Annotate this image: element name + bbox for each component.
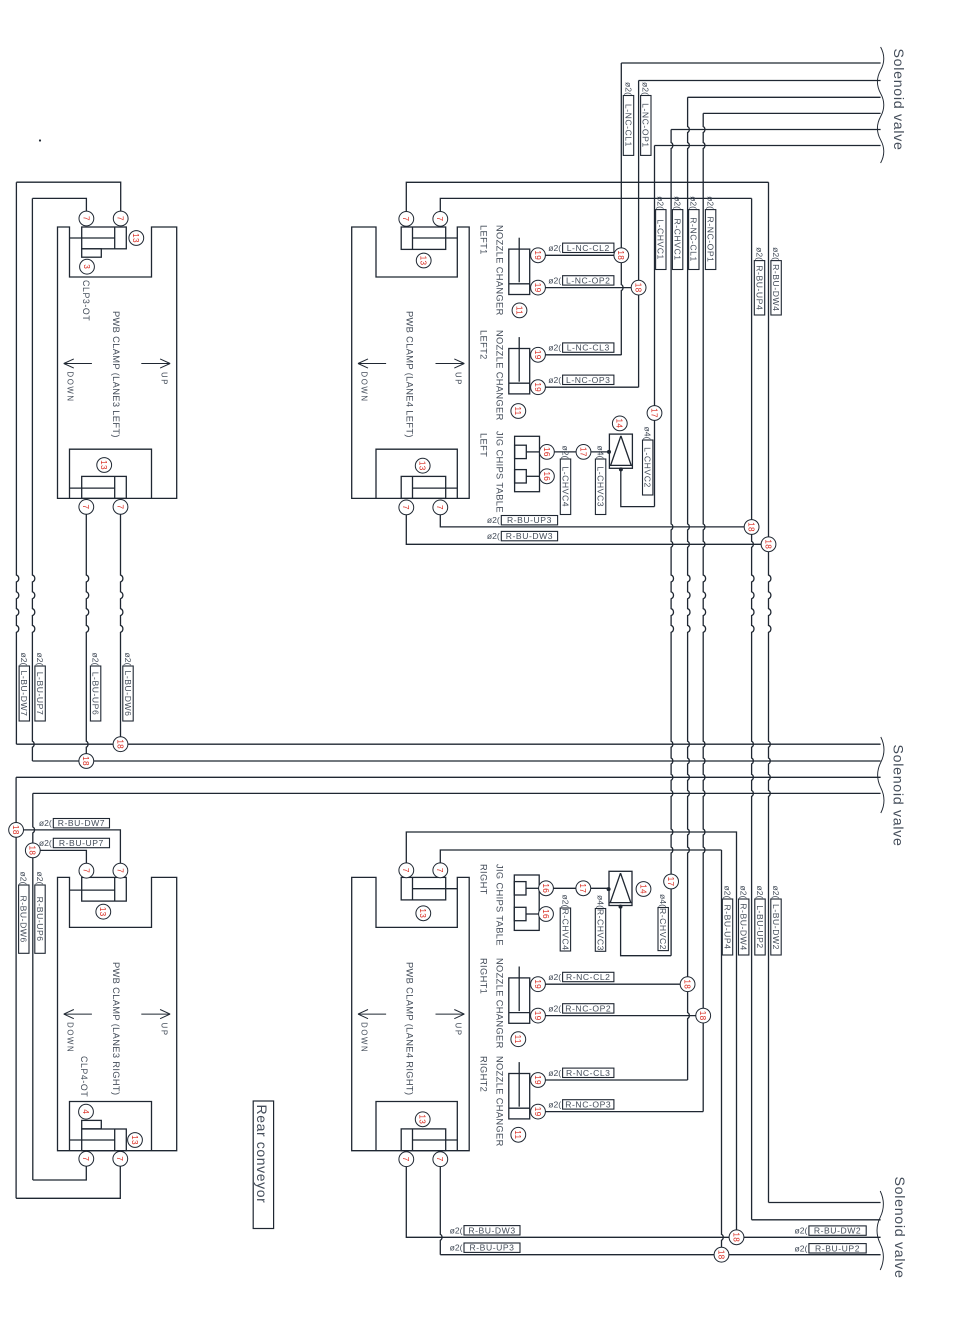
arrow UP [436,359,465,386]
arrow UP [141,359,170,386]
svg-text:18: 18 [81,756,90,766]
node 19 nozzle changer port [531,1073,546,1088]
node 18 junction [79,754,94,769]
label R-NC-OP3 [548,1099,614,1109]
svg-text:ø2(: ø2( [673,196,683,209]
label R-BU-DW7 [39,818,110,828]
node 19 nozzle changer port [531,280,546,295]
node 7 cylinder port [399,863,414,878]
node 7 cylinder port [79,1151,94,1166]
svg-text:18: 18 [115,739,124,749]
piston CLP3 bottom [70,476,127,498]
svg-text:Solenoid valve: Solenoid valve [890,49,906,151]
title NOZZLE CHANGER RIGHT2 [478,1056,504,1147]
label L-BU-UP6 [90,653,100,721]
wire L-BU-UP2 elbow to bottom solenoid valve [752,1219,881,1221]
wire R-BU-DW3 lower to bottom solenoid valve [406,1167,880,1238]
node 3 [80,259,95,274]
node 16 jig port [540,445,555,460]
wire flow valve LEFT output to bus L-CHVC1 [621,469,655,506]
svg-text:RIGHT2: RIGHT2 [478,1056,488,1092]
svg-text:R-BU-DW4: R-BU-DW4 [739,903,749,950]
svg-text:3: 3 [82,264,91,269]
label ø4 L-CHVC2 [643,427,653,495]
svg-text:L-BU-DW6: L-BU-DW6 [123,671,133,717]
svg-text:L-CHVC4: L-CHVC4 [560,466,570,507]
label R-BU-DW3 lower [450,1225,520,1235]
flow control valve RIGHT [607,871,632,908]
svg-text:NOZZLE CHANGER: NOZZLE CHANGER [494,225,504,316]
svg-text:18: 18 [28,846,37,856]
svg-text:Solenoid valve: Solenoid valve [890,745,906,847]
label ø4 R-CHVC2 [658,894,668,951]
wire CLP4 bottom left port to R-BU-UP6 [33,1166,87,1180]
svg-text:ø2(: ø2( [560,895,570,908]
svg-text:ø2(: ø2( [548,1068,561,1078]
svg-text:L-CHVC3: L-CHVC3 [596,466,606,507]
wire branch R-BU-UP7 to CLP4 top left port [40,850,86,863]
node 7 cylinder port [113,500,128,515]
wire bus R-CHVC1 to solenoid [671,129,881,131]
svg-text:PWB CLAMP (LANE4 LEFT): PWB CLAMP (LANE4 LEFT) [405,311,415,438]
svg-text:ø4(: ø4( [643,427,653,440]
node 7 cylinder port [399,500,414,515]
cylinder body PWB CLAMP (LANE4 RIGHT) [352,877,470,1150]
label R-NC-CL1 [689,196,699,269]
svg-text:11: 11 [513,406,522,415]
svg-text:R-CHVC4: R-CHVC4 [560,908,570,950]
node 19 nozzle changer port [531,347,546,362]
svg-text:ø2(: ø2( [722,886,732,899]
svg-text:DOWN: DOWN [65,1022,74,1053]
node 7 cylinder port [79,211,94,226]
arrow DOWN [64,1010,92,1054]
svg-text:R-NC-CL1: R-NC-CL1 [689,217,699,262]
node 16 jig port [539,907,554,922]
svg-text:R-BU-UP7: R-BU-UP7 [59,838,104,848]
node 13 [129,231,144,246]
svg-text:ø2(: ø2( [123,653,133,666]
wire R-NC-CL2 from nozzle changer RIGHT1 [545,983,680,985]
jig chips table RIGHT [514,875,539,930]
arrow DOWN [358,1010,386,1054]
node 19 nozzle changer port [531,380,546,395]
node 7 cylinder port [433,500,448,515]
flow control valve LEFT [607,434,632,471]
svg-text:R-BU-UP4: R-BU-UP4 [722,905,732,950]
piston LANE4-LEFT bottom [401,476,457,498]
wire branch R-BU-DW7 to CLP4 top right port [24,830,121,863]
svg-text:R-NC-OP3: R-NC-OP3 [565,1099,611,1109]
svg-text:NOZZLE CHANGER: NOZZLE CHANGER [494,330,504,421]
nozzle changer cylinder RIGHT2 [509,1062,530,1119]
svg-text:7: 7 [401,868,410,873]
svg-text:18: 18 [763,539,772,549]
node 17 [576,445,591,460]
node 14 [636,882,651,897]
node 16 jig port [539,881,554,896]
svg-text:ø2(: ø2( [623,82,633,95]
svg-text:LEFT: LEFT [478,433,488,457]
svg-text:11: 11 [513,1130,522,1139]
svg-text:L-BU-UP7: L-BU-UP7 [35,672,45,716]
svg-text:R-NC-CL3: R-NC-CL3 [566,1068,611,1078]
node 14 [612,416,627,431]
svg-text:UP: UP [159,1023,168,1037]
node 13 [416,253,431,268]
svg-text:NOZZLE CHANGER: NOZZLE CHANGER [494,1056,504,1147]
svg-text:7: 7 [435,868,444,873]
wire LANE4-RIGHT top left port to vertical R-BU-DW4 lower [406,832,736,1230]
arrow DOWN [64,359,92,403]
svg-text:ø2(: ø2( [450,1225,463,1235]
label L-NC-CL3 [548,343,614,353]
svg-text:ø2(: ø2( [771,247,781,260]
solenoid valve break bottom [877,1191,883,1270]
svg-text:7: 7 [401,1157,410,1162]
node 7 cylinder port [79,500,94,515]
wire R-NC-OP2 from nozzle changer RIGHT1 [545,1015,695,1017]
svg-text:18: 18 [11,825,20,835]
wire L-BU-DW2 elbow to bottom solenoid valve [769,1202,881,1204]
svg-text:R-BU-UP3: R-BU-UP3 [507,515,552,525]
svg-text:ø4(: ø4( [658,894,668,907]
svg-text:DOWN: DOWN [360,372,369,403]
node 7 cylinder port [79,863,94,878]
solenoid valve break top [877,47,883,163]
svg-text:13: 13 [419,256,428,266]
svg-text:ø2(: ø2( [771,886,781,899]
svg-text:7: 7 [435,1157,444,1162]
wire jig RIGHT lower port to node 16 [526,913,540,915]
label ø2 R-CHVC4 [560,895,570,951]
svg-text:ø2(: ø2( [548,1099,561,1109]
piston LANE4-RIGHT top [401,877,457,900]
svg-text:18: 18 [747,522,756,532]
svg-text:ø2(: ø2( [548,972,561,982]
svg-text:DOWN: DOWN [65,372,74,403]
wire flow valve RIGHT output to bus R-CHVC1 [621,908,672,956]
svg-text:R-BU-UP2: R-BU-UP2 [815,1243,860,1253]
svg-text:CLP3-OT: CLP3-OT [81,280,91,321]
svg-text:13: 13 [131,233,140,243]
svg-text:R-BU-DW6: R-BU-DW6 [19,895,29,942]
wire clamp CLP3 top left port to vertical L-BU-UP7 [32,198,86,211]
wire R-BU-UP net corner to middle solenoid valve [33,792,881,794]
piston CLP3 top [70,227,127,257]
label ø4 L-CHVC3 [595,446,605,515]
node 7 cylinder port [433,1152,448,1167]
cylinder body PWB CLAMP (LANE3 LEFT) [58,227,177,498]
svg-text:L-BU-UP2: L-BU-UP2 [755,905,765,949]
node 7 cylinder port [433,863,448,878]
svg-text:16: 16 [542,447,551,457]
svg-text:L-NC-OP3: L-NC-OP3 [566,375,611,385]
svg-text:18: 18 [634,283,643,293]
svg-text:CLP4-OT: CLP4-OT [79,1056,89,1097]
wire jig LEFT lower port to node 16 [526,475,540,477]
wire vertical R-BU-UP6 below node [32,858,34,1180]
wire R-NC-CL3 from nozzle changer RIGHT2 [545,1079,687,1081]
node 7 cylinder port [399,1152,414,1167]
svg-text:UP: UP [159,372,168,386]
svg-text:19: 19 [533,382,542,392]
node 13 [416,906,431,921]
svg-text:19: 19 [533,979,542,989]
svg-text:L-NC-CL2: L-NC-CL2 [567,243,610,253]
node 13 [128,1133,143,1148]
svg-text:ø4(: ø4( [595,895,605,908]
node 7 cylinder port [113,1151,128,1166]
label L-NC-OP1 [641,82,651,155]
wire bus R-NC-CL1 to solenoid [688,96,881,98]
label R-BU-UP3 [487,515,558,525]
arrow DOWN [358,359,386,403]
svg-text:13: 13 [418,1114,427,1124]
svg-text:NOZZLE CHANGER: NOZZLE CHANGER [494,958,504,1049]
label L-NC-OP2 [548,275,614,285]
svg-text:R-NC-CL2: R-NC-CL2 [566,972,611,982]
svg-text:ø2(: ø2( [548,243,561,253]
node 11 [511,1127,526,1142]
svg-text:19: 19 [533,283,542,293]
label ø4 R-CHVC3 [595,895,605,951]
wire L-NC-CL3 from nozzle changer LEFT2 [545,354,621,356]
svg-text:PWB CLAMP (LANE3 LEFT): PWB CLAMP (LANE3 LEFT) [111,311,121,438]
node 11 [512,303,527,318]
wire L-BU-DW net to middle solenoid valve [16,743,880,745]
label L-NC-OP3 [548,375,614,385]
svg-text:ø2(: ø2( [19,872,29,885]
svg-text:R-CHVC1: R-CHVC1 [673,219,683,261]
wire L-BU-UP net to middle solenoid valve [32,760,880,762]
svg-text:L-NC-CL1: L-NC-CL1 [623,104,633,147]
svg-text:R-BU-UP4: R-BU-UP4 [754,265,764,310]
node 18 junction [9,823,24,838]
svg-text:13: 13 [99,460,108,470]
svg-text:ø2(: ø2( [706,196,716,209]
svg-text:JIG CHIPS TABLE: JIG CHIPS TABLE [494,864,504,946]
node 18 junction [25,843,40,858]
wire L-NC-CL2 from nozzle changer LEFT1 [545,254,614,256]
svg-text:ø2(: ø2( [739,886,749,899]
svg-text:L-BU-UP6: L-BU-UP6 [91,672,101,716]
svg-text:7: 7 [115,504,124,509]
label L-NC-CL1 [623,82,633,155]
wire vertical L-BU-DW6 from CLP3 bottom right port [121,514,123,737]
label R-BU-DW6 [19,872,29,954]
svg-text:ø2(: ø2( [39,838,52,848]
svg-text:JIG CHIPS TABLE: JIG CHIPS TABLE [494,431,504,513]
wire bus L-NC-OP1 to solenoid [639,80,881,82]
svg-text:ø2(: ø2( [39,818,52,828]
label L-BU-DW2 [771,886,781,955]
arrow UP [436,1010,465,1037]
nozzle changer cylinder LEFT1 [509,238,530,295]
wire clamp CLP3 top right port to vertical L-BU-DW7 [16,182,120,211]
svg-text:16: 16 [541,883,550,893]
label R-BU-UP6 [35,872,45,954]
label R-NC-CL2 [548,972,614,982]
title NOZZLE CHANGER LEFT1 [478,225,504,316]
svg-text:R-NC-OP2: R-NC-OP2 [565,1003,611,1013]
nozzle changer cylinder LEFT2 [509,337,530,394]
svg-text:DOWN: DOWN [360,1022,369,1053]
svg-text:R-BU-UP6: R-BU-UP6 [35,897,45,942]
node 16 jig port [540,469,555,484]
label R-NC-CL3 [548,1068,614,1078]
svg-text:R-BU-DW7: R-BU-DW7 [58,818,105,828]
svg-text:13: 13 [418,908,427,918]
svg-text:19: 19 [533,1011,542,1021]
svg-text:ø2(: ø2( [487,515,500,525]
svg-text:LEFT1: LEFT1 [478,225,488,255]
svg-text:16: 16 [541,909,550,919]
arrow UP [141,1010,170,1037]
svg-text:17: 17 [649,408,658,418]
label ø2 L-CHVC4 [560,446,570,515]
svg-text:R-CHVC2: R-CHVC2 [658,908,668,950]
svg-text:L-NC-OP1: L-NC-OP1 [641,103,651,148]
cylinder body PWB CLAMP (LANE3 RIGHT) [58,877,177,1150]
label R-NC-OP2 [548,1003,614,1013]
wire node 17 to flow valve LEFT [591,451,610,453]
label R-BU-UP2 [795,1243,867,1253]
svg-text:7: 7 [401,505,410,510]
svg-text:19: 19 [533,1075,542,1085]
label L-BU-DW7 [19,653,29,721]
svg-text:7: 7 [435,505,444,510]
svg-text:RIGHT1: RIGHT1 [478,958,488,994]
node 13 [415,458,430,473]
node 18 junction [631,280,646,295]
svg-text:18: 18 [731,1232,740,1242]
svg-text:RIGHT: RIGHT [478,864,488,895]
svg-text:ø2(: ø2( [35,872,45,885]
svg-text:ø2(: ø2( [641,82,651,95]
wire LANE4-LEFT top left port to vertical R-BU-DW4 [406,182,768,211]
svg-text:R-BU-DW3: R-BU-DW3 [468,1225,515,1235]
svg-text:18: 18 [616,250,625,260]
piston CLP4 top [70,877,127,901]
wire node 17 to flow valve RIGHT [591,887,609,889]
wire R-BU-DW net corner to middle solenoid valve [16,776,881,778]
wire vertical R-BU-DW6 below node [15,837,17,1198]
node 17 [576,881,591,896]
svg-text:7: 7 [81,504,90,509]
svg-text:ø2(: ø2( [795,1243,808,1253]
nozzle changer cylinder RIGHT1 [509,967,530,1024]
wire R-BU-UP3 lower to bottom solenoid valve [440,1167,442,1255]
node 7 cylinder port [113,211,128,226]
wire bus L-NC-CL1 to solenoid [621,62,880,64]
node 18 junction [113,737,128,752]
label R-CHVC1 [672,196,682,269]
label R-BU-UP4 [754,247,764,315]
svg-text:ø2(: ø2( [548,275,561,285]
svg-text:7: 7 [81,1156,90,1161]
node 17 [664,874,679,889]
node 17 [647,406,662,421]
label L-BU-DW6 [123,653,133,721]
svg-text:19: 19 [533,1107,542,1117]
node 18 junction [714,1247,729,1262]
wire L-NC-OP3 from nozzle changer LEFT2 [545,386,638,388]
svg-text:UP: UP [454,372,463,386]
svg-text:ø2(: ø2( [548,375,561,385]
label box Rear conveyor [253,1101,273,1229]
svg-text:L-NC-CL3: L-NC-CL3 [567,343,610,353]
svg-text:18: 18 [716,1250,725,1260]
svg-text:Solenoid valve: Solenoid valve [891,1177,907,1279]
node 18 junction [614,248,629,263]
svg-text:PWB CLAMP (LANE3 RIGHT): PWB CLAMP (LANE3 RIGHT) [111,962,121,1095]
svg-text:ø2(: ø2( [19,653,29,666]
node 18 junction [761,537,776,552]
wire jig RIGHT port to node 16 [526,887,540,889]
svg-text:7: 7 [81,216,90,221]
title JIG CHIPS TABLE RIGHT [478,864,504,946]
node 11 [511,1032,526,1047]
title NOZZLE CHANGER RIGHT1 [478,958,504,1049]
svg-text:17: 17 [578,447,587,457]
svg-text:ø2(: ø2( [548,1003,561,1013]
svg-text:L-CHVC2: L-CHVC2 [643,447,653,488]
svg-text:13: 13 [130,1135,139,1145]
svg-text:L-CHVC1: L-CHVC1 [656,219,666,260]
wire LANE4-LEFT top right port to vertical R-BU-UP4 [440,198,751,211]
svg-text:ø2(: ø2( [450,1243,463,1253]
svg-text:ø2(: ø2( [548,343,561,353]
svg-text:4: 4 [81,1109,90,1114]
label R-BU-DW4 [771,247,781,315]
node 18 junction [680,977,695,992]
svg-text:7: 7 [435,216,444,221]
svg-text:L-NC-OP2: L-NC-OP2 [566,275,611,285]
svg-text:ø2(: ø2( [35,653,45,666]
svg-text:ø2(: ø2( [755,886,765,899]
svg-text:R-BU-DW2: R-BU-DW2 [814,1226,861,1236]
svg-text:7: 7 [115,868,124,873]
svg-text:7: 7 [401,216,410,221]
svg-text:14: 14 [615,419,624,429]
wire R-NC-OP3 from nozzle changer RIGHT2 [545,1111,703,1113]
node 18 junction [744,520,759,535]
svg-text:UP: UP [454,1023,463,1037]
cylinder body PWB CLAMP (LANE4 LEFT) [352,227,470,498]
node 7 cylinder port [399,212,414,227]
node 18 junction [729,1230,744,1245]
wire bus L-CHVC1 to solenoid [655,145,881,147]
node 7 cylinder port [113,863,128,878]
node 19 nozzle changer port [531,248,546,263]
svg-text:17: 17 [666,877,675,887]
svg-text:R-BU-DW3: R-BU-DW3 [506,531,553,541]
node 7 cylinder port [433,212,448,227]
svg-text:13: 13 [98,907,107,917]
svg-text:14: 14 [638,884,647,894]
node 19 nozzle changer port [531,977,546,992]
svg-text:ø2(: ø2( [754,247,764,260]
node 13 [96,904,111,919]
svg-text:19: 19 [533,250,542,260]
svg-text:18: 18 [683,979,692,989]
piston LANE4-RIGHT bottom [401,1129,457,1151]
node 19 nozzle changer port [531,1104,546,1119]
svg-text:R-BU-UP3: R-BU-UP3 [470,1243,515,1253]
svg-text:17: 17 [578,883,587,893]
svg-text:R-NC-OP1: R-NC-OP1 [706,217,716,263]
